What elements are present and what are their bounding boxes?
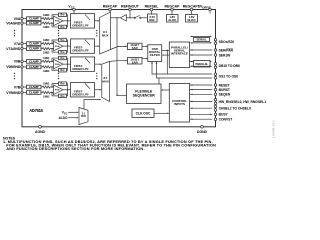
wire SAR A to OSR filter [142, 45, 146, 47]
node PGA output junction [67, 45, 68, 46]
svg-text:SEQUENCER: SEQUENCER [133, 94, 156, 98]
svg-text:CLK OSC: CLK OSC [136, 111, 151, 115]
serial label block [194, 38, 210, 42]
pin DGND (bottom) [201, 126, 204, 129]
pin DB15 TO DB0 (right) [214, 63, 217, 66]
feedback resistor RFB bottom (V7AGND) [52, 49, 59, 53]
pin BUSY (right) [190, 113, 213, 115]
feedback resistor RFB top (V7A) [52, 40, 59, 44]
feedback resistor RFB bottom (V0BGND) [52, 67, 59, 70]
wire PGA output to LPF [63, 89, 71, 91]
pin V7A (left) [23, 43, 26, 45]
resistor 1MΩ (V0AGND) [41, 22, 43, 24]
wire serial data in [191, 42, 211, 44]
svg-text:SER/PAR: SER/PAR [219, 48, 234, 52]
resistor 1MΩ (V0B) [41, 60, 43, 62]
wire 2:1 mux output to mux B [84, 100, 99, 110]
resistor 1MΩ (V7AGND) [41, 48, 43, 50]
wire resistors to PGA inputs (V7B/V7BGND) [50, 86, 54, 88]
svg-text:INPUTS: INPUTS [174, 102, 185, 106]
pin VDRIVE (top) [209, 11, 211, 14]
op-amp PGA (V7B/V7BGND) [54, 85, 64, 95]
wire control inputs to sequencer [163, 89, 170, 91]
svg-text:V0B: V0B [14, 60, 21, 64]
svg-text:1MΩ: 1MΩ [43, 56, 50, 60]
feedback resistor RFB bottom (V0AGND) [52, 23, 59, 27]
node feedback tap V7BGND [51, 92, 52, 93]
svg-text:SDOx/SDI: SDOx/SDI [219, 40, 234, 44]
1.8V ALDO block [167, 15, 179, 23]
svg-text:MUX: MUX [102, 80, 108, 84]
pin VCC (top) [73, 11, 75, 14]
svg-text:V7B: V7B [14, 85, 21, 89]
svg-text:V7AGND: V7AGND [6, 47, 21, 51]
wire LPF output to mux (V0A/V0AGND) [95, 20, 98, 22]
svg-text:FILTER: FILTER [150, 53, 161, 57]
pin V0A (left) [23, 18, 26, 20]
svg-text:PGA: PGA [55, 45, 60, 48]
svg-text:DB15 TO DB0: DB15 TO DB0 [219, 64, 240, 68]
ellipsis dots (more channels) [58, 30, 59, 31]
wire REFCAP to buffer output [110, 17, 120, 19]
wire OS2-OS0 to OSR filter 2 [157, 62, 213, 78]
svg-text:V0A: V0A [14, 17, 21, 21]
svg-text:DLDO: DLDO [187, 18, 196, 22]
svg-text:ORDER LPF: ORDER LPF [72, 49, 89, 53]
2.5V REF block [148, 14, 158, 22]
svg-text:REGCAPD: REGCAPD [183, 4, 201, 8]
svg-text:VCC: VCC [62, 110, 68, 115]
svg-text:SEQEN: SEQEN [219, 93, 231, 97]
feedback resistor RFB top (V0B) [52, 58, 59, 61]
svg-text:DGND: DGND [197, 130, 208, 134]
svg-text:PARALLEL: PARALLEL [196, 62, 209, 66]
parallel/serial interface block [169, 42, 189, 68]
svg-text:REFCAP: REFCAP [103, 4, 118, 8]
svg-text:ORDER LPF: ORDER LPF [72, 67, 89, 71]
pin BURST (right) [190, 89, 213, 91]
op-amp PGA (V0A/V0AGND) [54, 16, 64, 26]
pin RESET (right) [190, 84, 213, 86]
wire buffer input to REFINOUT [126, 17, 134, 19]
pin V0B (left) [23, 60, 26, 62]
svg-text:OS2 TO OS0: OS2 TO OS0 [219, 74, 239, 78]
clamp block for V0AGND [27, 21, 42, 25]
svg-text:SAR: SAR [132, 60, 138, 64]
ellipsis dots (more channels) [96, 73, 97, 74]
clamp block for V7B [27, 85, 42, 89]
pin SER1W (right) [190, 54, 213, 56]
svg-text:CLAMP: CLAMP [29, 90, 39, 94]
svg-text:CLAMP: CLAMP [29, 17, 39, 21]
resistor 1MΩ (V7A) [41, 43, 43, 45]
node select line junction [116, 95, 117, 96]
node REFCAP/buffer junction [116, 17, 117, 18]
clock oscillator block [132, 109, 154, 118]
ellipsis dots (more channels) [14, 73, 15, 74]
svg-text:REGCAP: REGCAP [165, 4, 181, 8]
clamp block for V0A [27, 17, 42, 21]
feedback resistor RFB bottom (V7BGND) [52, 93, 59, 96]
16-bit SAR ADC B [128, 58, 143, 65]
control inputs block [169, 84, 189, 123]
pin OS2 TO OS0 (right) [214, 73, 217, 76]
wire interface to sequencer (vertical) [166, 51, 168, 75]
pin REGCAP (top) [171, 11, 173, 15]
ellipsis dots (more channels) [96, 30, 97, 31]
svg-text:13088-001: 13088-001 [272, 120, 276, 138]
chip outline AD7616 [22, 10, 216, 127]
svg-text:V7BGND: V7BGND [6, 91, 21, 95]
svg-text:PGA: PGA [55, 89, 60, 92]
svg-text:AD7616: AD7616 [29, 108, 43, 113]
op-amp reference buffer [120, 15, 126, 21]
pin V0BGND (left) [23, 66, 26, 68]
svg-text:ORDER LPF: ORDER LPF [72, 23, 89, 27]
svg-text:ORDER LPF: ORDER LPF [72, 92, 89, 96]
wire reference/select vertical line [116, 18, 118, 96]
wire OSR filter to interface [162, 50, 168, 52]
ellipsis dots (more channels) [14, 30, 15, 31]
svg-text:CLAMP: CLAMP [29, 47, 39, 51]
clamp block for V7A [27, 42, 42, 46]
svg-text:BURST: BURST [219, 88, 230, 92]
wire interface to OSR filter [164, 54, 169, 56]
svg-text:REFINOUT: REFINOUT [121, 4, 140, 8]
wire resistors to PGA inputs (V0A/V0AGND) [50, 18, 54, 20]
mux B 8:1 [102, 61, 110, 101]
wire resistors to PGA inputs (V0B/V0BGND) [50, 60, 54, 62]
svg-text:VCC: VCC [68, 4, 74, 9]
node feedback tap V7B [51, 86, 52, 87]
wire mux B output to SAR B [110, 60, 126, 63]
pin REFSEL (top) [151, 11, 153, 14]
switch REFSEL (internal/external reference) [134, 17, 135, 18]
svg-text:MUX: MUX [102, 34, 108, 38]
svg-text:V7A: V7A [14, 42, 21, 46]
resistor 1MΩ (V7B) [41, 86, 43, 88]
svg-text:1MΩ: 1MΩ [43, 25, 50, 29]
first-order LPF block (V7B/V7BGND) [71, 83, 95, 97]
mux A 8:1 [100, 12, 111, 54]
pin SEQEN (right) [190, 93, 213, 95]
svg-text:HW_RNGSEL0, HW_RNGSEL1: HW_RNGSEL0, HW_RNGSEL1 [219, 100, 267, 104]
flexible sequencer block [127, 84, 162, 104]
pin V0AGND (left) [23, 22, 26, 24]
svg-text:PGA: PGA [55, 63, 60, 66]
wire serial data out [191, 35, 211, 37]
1.8V DLDO block [186, 15, 198, 23]
svg-text:CLAMP: CLAMP [29, 59, 39, 63]
clamp block for V0B [27, 60, 42, 64]
first-order LPF block (V0A/V0AGND) [71, 14, 95, 28]
node feedback tap V0B [51, 61, 52, 62]
pin SDOx-SDI (right) [214, 39, 217, 42]
node feedback tap V7AGND [51, 48, 52, 49]
svg-text:CONVST: CONVST [219, 117, 233, 121]
pin REGCAPD (top) [191, 11, 193, 15]
svg-text:AGND: AGND [35, 130, 46, 134]
svg-text:BUSY: BUSY [219, 113, 229, 117]
resistor 1MΩ (V0A) [41, 18, 43, 20]
wire parallel bus out [190, 61, 211, 63]
pin AGND (bottom) [39, 126, 42, 129]
svg-text:CHSEL2 TO CHSEL0: CHSEL2 TO CHSEL0 [219, 106, 251, 110]
wire switch to 2.5V REF [141, 17, 148, 19]
wire LPF output to mux (V7B/V7BGND) [95, 89, 101, 91]
svg-text:AND FUNCTION DESCRIPTIONS SECT: AND FUNCTION DESCRIPTIONS SECTION FOR MO… [6, 146, 144, 151]
wire OS2-OS0 to OSR filter [152, 62, 212, 74]
svg-text:ALDO: ALDO [58, 116, 68, 120]
feedback resistor RFB top (V0A) [52, 15, 59, 19]
op-amp PGA (V7A/V7AGND) [54, 41, 64, 51]
node feedback tap V7A [51, 43, 52, 44]
wire PGA output to LPF [63, 45, 71, 47]
svg-text:SERIAL: SERIAL [196, 38, 207, 42]
pin V7BGND (left) [23, 92, 26, 94]
svg-text:1MΩ: 1MΩ [43, 81, 50, 85]
pin V7B (left) [23, 86, 26, 88]
parallel label block [194, 61, 211, 68]
wire clk osc to control inputs [154, 112, 167, 114]
svg-text:SER1W: SER1W [219, 53, 232, 57]
svg-text:CLAMP: CLAMP [29, 21, 39, 25]
wire PGA output to LPF [63, 63, 71, 65]
node feedback tap V0AGND [51, 22, 52, 23]
svg-text:1MΩ: 1MΩ [43, 38, 50, 42]
pin CONVST (right) [190, 118, 213, 120]
wire resistors to PGA inputs (V7A/V7AGND) [50, 43, 54, 45]
ellipsis dots (more channels) [58, 73, 59, 74]
svg-text:INTERFACE: INTERFACE [171, 52, 188, 56]
wire select line to sequencer [117, 94, 127, 96]
svg-text:CLAMP: CLAMP [29, 65, 39, 69]
svg-text:1MΩ: 1MΩ [43, 69, 50, 73]
resistor 1MΩ (V7BGND) [41, 92, 43, 94]
svg-text:V0BGND: V0BGND [6, 65, 21, 69]
svg-text:1MΩ: 1MΩ [43, 94, 50, 98]
svg-text:1MΩ: 1MΩ [43, 13, 50, 17]
wire LPF output to mux (V7A/V7AGND) [95, 45, 98, 47]
svg-text:V0AGND: V0AGND [6, 21, 21, 25]
pin REFINOUT (top) [129, 11, 131, 18]
first-order LPF block (V0B/V0BGND) [71, 57, 95, 71]
node REFINOUT junction [129, 17, 130, 18]
wire OS bus to sequencer [158, 78, 160, 84]
wire LPF output to mux (V0B/V0BGND) [95, 63, 101, 65]
svg-text:SAR: SAR [132, 46, 138, 50]
node PGA output junction [67, 20, 68, 21]
svg-text:REF: REF [149, 18, 155, 22]
wire SAR B to OSR filter [142, 58, 146, 60]
OSR digital filter block [148, 45, 162, 62]
svg-text:ALDO: ALDO [168, 18, 177, 22]
feedback resistor RFB top (V7B) [52, 84, 59, 87]
pin CHSEL2 TO CHSEL0 (right) [190, 107, 213, 109]
node PGA output junction [67, 63, 68, 64]
pin REFCAP (top) [109, 11, 111, 18]
clamp block for V7AGND [27, 47, 42, 51]
svg-text:RESET: RESET [219, 83, 230, 87]
first-order LPF block (V7A/V7AGND) [71, 39, 95, 53]
clamp block for V7BGND [27, 91, 42, 95]
pin SER- (right) [190, 49, 213, 51]
pin V7AGND (left) [23, 48, 26, 50]
svg-text:CLAMP: CLAMP [29, 42, 39, 46]
svg-text:MUX: MUX [81, 116, 87, 118]
pin HW_RNGSEL0, HW_RNGSEL1 (right) [190, 101, 213, 103]
svg-text:REFSEL: REFSEL [145, 4, 160, 8]
clamp block for V0BGND [27, 65, 42, 69]
svg-text:1MΩ: 1MΩ [43, 51, 50, 55]
op-amp PGA (V0B/V0BGND) [54, 59, 64, 69]
16-bit SAR ADC A [128, 43, 143, 49]
wire PGA output to LPF [63, 20, 71, 22]
node PGA output junction [67, 89, 68, 90]
node feedback tap V0A [51, 18, 52, 19]
wire parallel bus in [190, 65, 211, 67]
wire mux A output to SAR A [111, 46, 126, 49]
svg-text:PGA: PGA [55, 20, 60, 23]
mux 2:1 self-test [79, 108, 88, 125]
node feedback tap V0BGND [51, 66, 52, 67]
svg-text:VDRIVE: VDRIVE [200, 4, 211, 9]
svg-text:CLAMP: CLAMP [29, 85, 39, 89]
resistor 1MΩ (V0BGND) [41, 66, 43, 68]
